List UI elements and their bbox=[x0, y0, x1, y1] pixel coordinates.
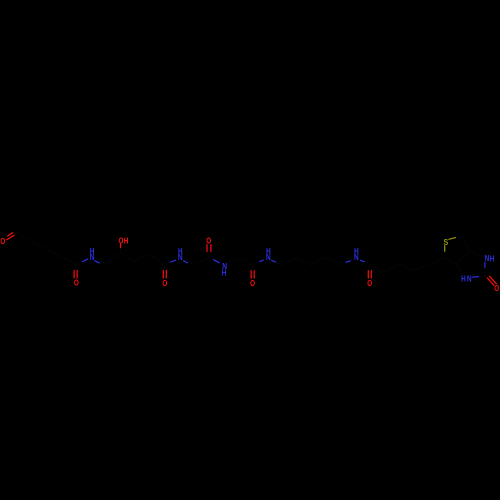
svg-text:O: O bbox=[0, 236, 5, 246]
svg-text:N: N bbox=[178, 252, 183, 262]
svg-text:O: O bbox=[367, 278, 372, 288]
svg-text:O: O bbox=[162, 278, 167, 288]
svg-text:O: O bbox=[250, 278, 255, 288]
svg-text:H: H bbox=[124, 236, 129, 246]
svg-text:O: O bbox=[74, 277, 79, 287]
svg-text:O: O bbox=[494, 283, 499, 293]
svg-text:S: S bbox=[443, 237, 448, 247]
svg-text:N: N bbox=[485, 253, 490, 263]
svg-text:N: N bbox=[467, 274, 472, 284]
svg-text:O: O bbox=[206, 236, 211, 246]
svg-text:N: N bbox=[266, 252, 271, 262]
svg-text:N: N bbox=[90, 252, 95, 262]
svg-text:H: H bbox=[222, 268, 227, 278]
svg-text:H: H bbox=[461, 274, 466, 284]
svg-text:H: H bbox=[490, 253, 495, 263]
svg-text:N: N bbox=[354, 252, 359, 262]
